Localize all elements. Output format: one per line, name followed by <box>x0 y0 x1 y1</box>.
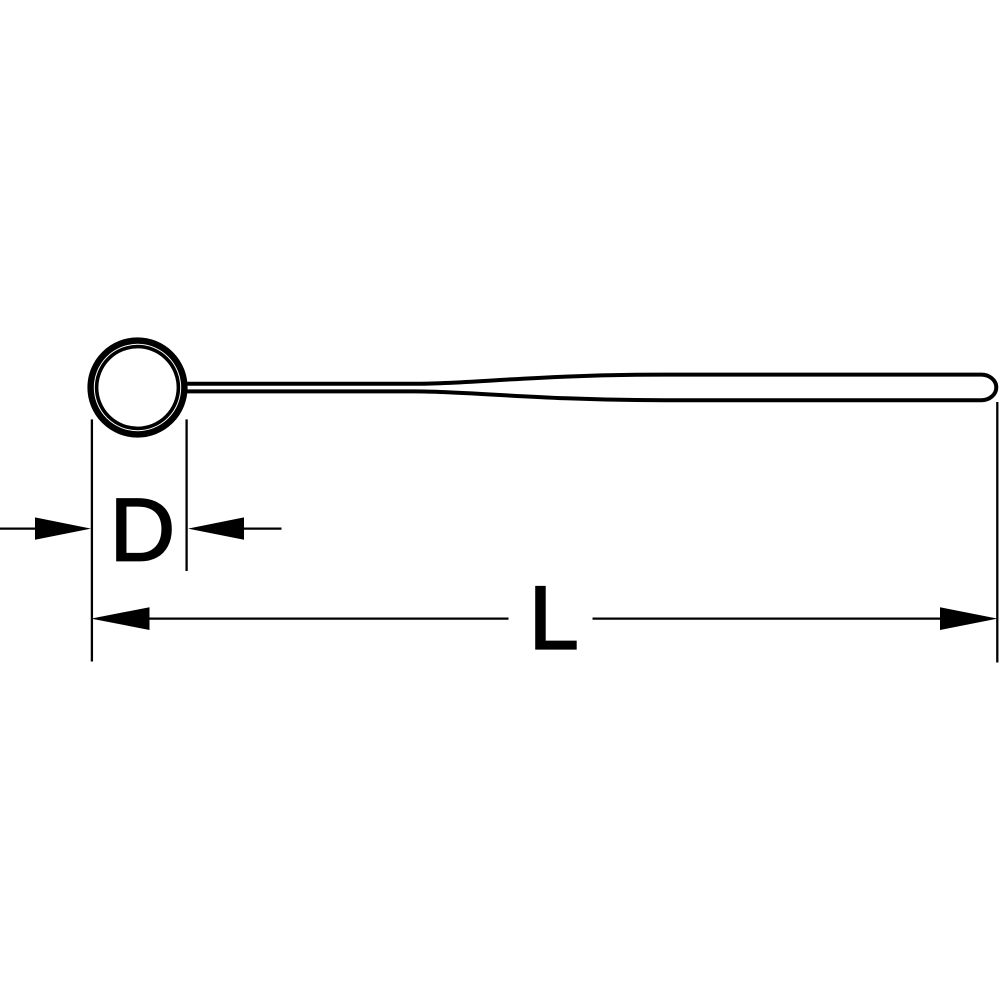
svg-text:D: D <box>110 480 176 580</box>
svg-text:L: L <box>529 568 579 668</box>
